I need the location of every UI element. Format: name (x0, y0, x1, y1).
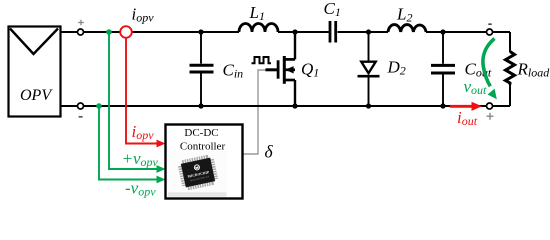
junction Q1 drain (292, 29, 297, 34)
minus terminal OPV (78, 103, 84, 117)
junction Q1 source (292, 103, 297, 108)
label vout (green) (464, 77, 488, 97)
resistor Rload (506, 52, 515, 85)
label Q1 (301, 60, 319, 80)
wire iopv sense (red) (126, 38, 157, 144)
pwm gate symbol (252, 57, 272, 63)
diode D2 (358, 32, 380, 106)
label C1 (324, 0, 341, 19)
Q1 body arrow (285, 66, 293, 73)
arrow vout (green arc) (483, 39, 497, 100)
wire delta gate (gray) (243, 70, 266, 154)
wire +vopv sense (green) (109, 32, 158, 169)
current sensor iopv (red circle) (120, 26, 132, 38)
microcontroller chip photo (168, 151, 227, 197)
capacitor Cin (190, 32, 214, 106)
arrow iout (red) (450, 102, 482, 111)
arrow -vopv into controller (157, 176, 166, 184)
junction Cout bottom (440, 103, 445, 108)
OPV label (20, 87, 53, 104)
label iopv (red, controller input) (132, 122, 155, 142)
transistor Q1 (MOSFET) (266, 32, 296, 106)
inductor L1 (239, 24, 278, 33)
inductor L2 (388, 25, 426, 32)
label L2 (396, 5, 412, 25)
label Cin (223, 61, 244, 81)
label +vopv (green) (122, 149, 159, 169)
label iout (red) (457, 108, 478, 128)
svg-text:δ: δ (265, 142, 274, 162)
wire bottom rail (61, 105, 510, 107)
arrow +vopv into controller (157, 165, 166, 173)
junction D2 bottom (366, 103, 371, 108)
capacitor C1 (330, 21, 336, 43)
label D2 (387, 58, 406, 78)
junction D2 top (366, 29, 371, 34)
junction Cin bottom (198, 103, 203, 108)
label iopv (top, black) (132, 5, 155, 25)
label DC-DC Controller (180, 127, 226, 152)
arrow iopv into controller (157, 140, 166, 148)
node +vopv tap (green junction on top rail) (106, 29, 112, 35)
label delta (265, 142, 274, 162)
label Rload (517, 60, 550, 80)
junction Cin top (198, 29, 203, 34)
wire right side verticals to load (509, 32, 511, 106)
capacitor Cout (431, 32, 455, 106)
node -vopv tap (green junction on bottom rail) (96, 103, 102, 109)
label L1 (249, 3, 265, 23)
plus terminal OPV (78, 20, 84, 35)
label Cout (465, 60, 492, 80)
wire -vopv sense (green) (99, 106, 158, 180)
svg-text:DC-DC: DC-DC (184, 127, 218, 139)
label -vopv (green) (125, 179, 156, 199)
minus terminal load (487, 24, 493, 35)
DC-DC controller box U1 (166, 125, 243, 199)
svg-text:Controller: Controller (180, 140, 226, 152)
wire top rail (61, 31, 510, 33)
plus terminal load (487, 103, 494, 120)
junction Cout top (440, 29, 445, 34)
OPV panel (9, 27, 61, 117)
svg-text:OPV: OPV (20, 87, 53, 104)
